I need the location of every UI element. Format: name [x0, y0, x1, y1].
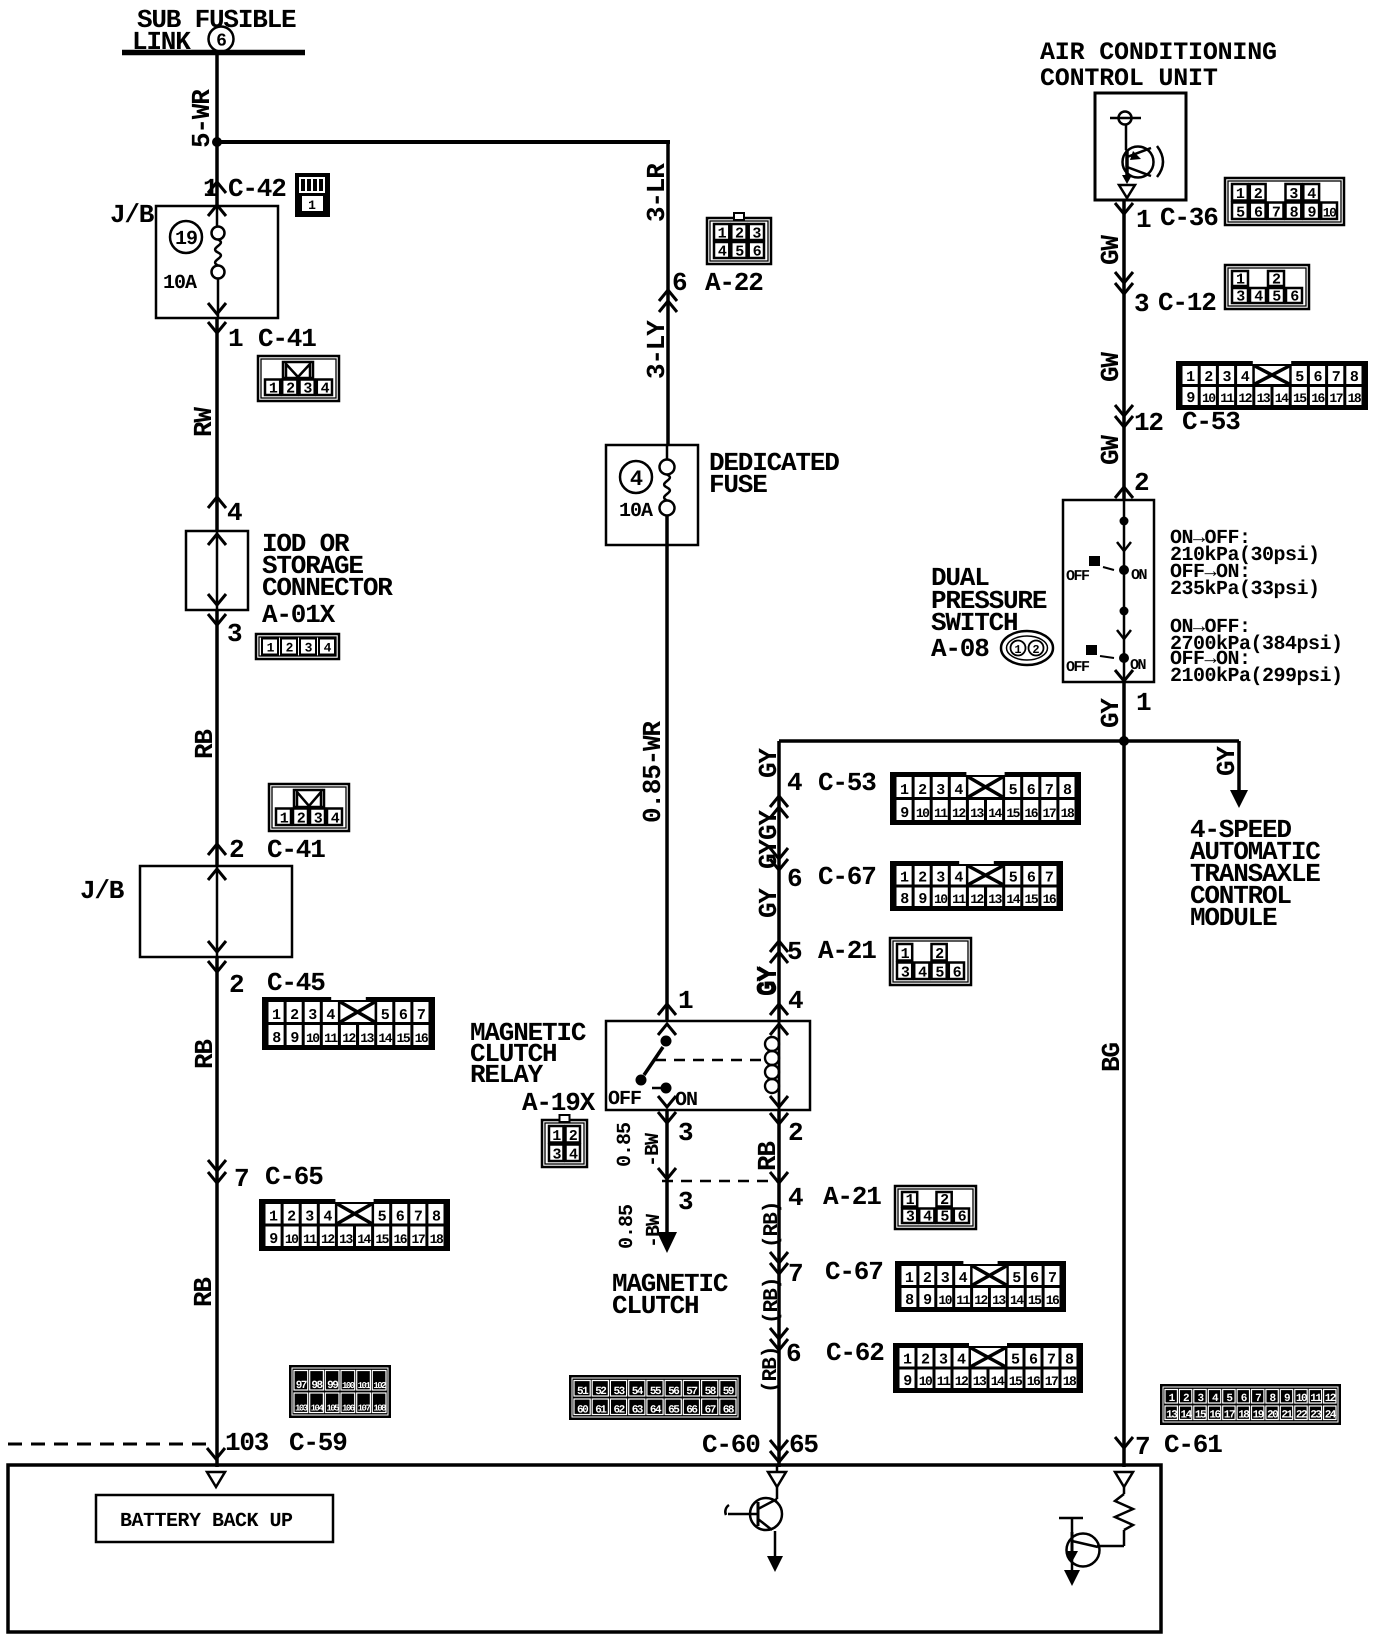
svg-text:GW: GW [1096, 235, 1126, 265]
svg-text:2: 2 [921, 1352, 930, 1369]
pressure switch contact lower [1066, 607, 1147, 682]
svg-text:60: 60 [577, 1405, 588, 1417]
dedicated fuse element [619, 445, 675, 523]
svg-text:6: 6 [672, 268, 687, 298]
svg-text:1: 1 [1186, 369, 1195, 386]
pin 65 arrow into module [770, 1440, 788, 1462]
svg-text:5: 5 [1009, 870, 1018, 887]
svg-text:J/B: J/B [110, 200, 155, 230]
pin 2 connector C-41 label [208, 835, 325, 865]
svg-text:2100kPa(299psi): 2100kPa(299psi) [1170, 665, 1343, 688]
svg-text:6: 6 [1313, 369, 1322, 386]
svg-text:2: 2 [1032, 643, 1039, 657]
junction block J/B lower box [80, 866, 292, 957]
svg-text:6: 6 [1241, 1393, 1247, 1405]
svg-text:6: 6 [787, 864, 802, 894]
fuse 19 element [163, 206, 225, 318]
svg-text:5: 5 [378, 1209, 387, 1226]
svg-text:22: 22 [1296, 1410, 1307, 1422]
MAGNETIC CLUTCH label [612, 1269, 728, 1321]
svg-text:GY: GY [754, 810, 784, 840]
svg-text:1: 1 [900, 782, 909, 799]
pin 1 connector C-42 label [203, 174, 286, 216]
svg-text:A-01X: A-01X [262, 600, 336, 630]
svg-text:1: 1 [308, 198, 316, 213]
svg-text:1: 1 [228, 324, 243, 354]
svg-text:11: 11 [956, 1293, 970, 1308]
svg-text:4: 4 [788, 1183, 803, 1213]
connector C-61 icon [1160, 1384, 1341, 1425]
svg-text:10: 10 [306, 1031, 320, 1046]
pin 6 connector C-67 label [770, 848, 876, 894]
svg-text:OFF: OFF [1066, 568, 1090, 585]
svg-text:7: 7 [1047, 1352, 1055, 1369]
AIR CONDITIONING CONTROL UNIT label [1040, 38, 1277, 93]
arrow to magnetic clutch [657, 1232, 677, 1253]
svg-text:62: 62 [613, 1405, 624, 1417]
svg-text:18: 18 [430, 1232, 444, 1247]
svg-text:13: 13 [992, 1293, 1006, 1308]
svg-text:6: 6 [216, 31, 226, 51]
svg-text:GW: GW [1096, 352, 1126, 382]
svg-text:GW: GW [1096, 435, 1126, 465]
svg-text:7: 7 [1332, 369, 1340, 386]
wire RB upper [190, 610, 220, 866]
svg-text:J/B: J/B [80, 876, 125, 906]
svg-text:3: 3 [939, 1352, 948, 1369]
svg-text:10A: 10A [163, 272, 197, 295]
svg-text:C-42: C-42 [228, 174, 286, 204]
AIR CONDITIONING CONTROL UNIT box [1095, 93, 1186, 200]
wire horizontal to 3-LR branch [216, 140, 670, 144]
connector C-67 icon (upper) [890, 860, 1063, 911]
svg-text:5: 5 [1295, 369, 1304, 386]
svg-text:1: 1 [267, 641, 275, 656]
svg-text:0.85: 0.85 [616, 1205, 639, 1249]
pin 2 into dual pressure switch [1115, 468, 1149, 498]
svg-text:13: 13 [360, 1031, 374, 1046]
svg-text:3: 3 [941, 1270, 950, 1287]
connector C-42 icon [295, 173, 330, 217]
svg-text:12: 12 [1134, 408, 1163, 438]
svg-text:16: 16 [1209, 1410, 1220, 1422]
node junction 5-WR [212, 137, 222, 147]
pin 3 relay exit [614, 1112, 693, 1167]
connector C-53 icon (branch) [890, 771, 1081, 825]
wire RB below relay [753, 1110, 803, 1467]
svg-text:2: 2 [1134, 468, 1149, 498]
svg-text:7: 7 [1048, 1270, 1056, 1287]
svg-text:12: 12 [974, 1293, 988, 1308]
connector A-21 icon (upper) [890, 938, 971, 985]
svg-text:4: 4 [227, 498, 242, 528]
svg-text:2: 2 [918, 870, 927, 887]
svg-text:GY: GY [1212, 746, 1242, 776]
svg-text:AIR CONDITIONING: AIR CONDITIONING [1040, 38, 1277, 67]
svg-text:11: 11 [1220, 391, 1234, 406]
svg-text:3: 3 [678, 1187, 693, 1217]
svg-text:11: 11 [934, 806, 948, 821]
svg-text:13: 13 [970, 806, 984, 821]
svg-text:15: 15 [375, 1232, 389, 1247]
svg-text:3: 3 [308, 1007, 317, 1024]
svg-text:C-41: C-41 [267, 835, 325, 865]
transistor (module, middle) [725, 1465, 786, 1572]
dashed boundary line left [8, 1443, 206, 1446]
wire RW [189, 318, 219, 531]
svg-text:3: 3 [1222, 369, 1231, 386]
pin 5 connector A-21 label [770, 936, 876, 967]
svg-text:103: 103 [225, 1428, 269, 1458]
junction block J/B fuse 19 box [110, 200, 278, 318]
a/c control unit internal circuit [1110, 112, 1163, 199]
svg-text:13: 13 [1257, 391, 1271, 406]
wire GY horizontal [779, 739, 1239, 743]
svg-text:65: 65 [789, 1430, 818, 1460]
svg-text:1: 1 [1136, 205, 1151, 235]
svg-text:4: 4 [788, 986, 803, 1016]
pin 4 connector C-53 label [770, 768, 876, 818]
svg-text:2: 2 [290, 1007, 299, 1024]
svg-text:7: 7 [1045, 870, 1053, 887]
wire RB middle [190, 957, 220, 1444]
pin 7 connector C-61 label [1115, 1430, 1222, 1462]
svg-text:1: 1 [1236, 272, 1245, 289]
svg-text:105: 105 [326, 1404, 339, 1414]
svg-text:C-67: C-67 [825, 1257, 883, 1287]
connector C-36 icon [1225, 178, 1344, 225]
pin 7 connector C-67 lower label [770, 1252, 883, 1289]
connector C-59 icon [289, 1365, 391, 1418]
svg-text:RW: RW [189, 407, 219, 437]
svg-text:RB: RB [190, 1039, 220, 1069]
svg-text:2: 2 [923, 1270, 932, 1287]
DEDICATED FUSE box [606, 445, 839, 545]
4-SPEED AUTOMATIC TRANSAXLE CONTROL MODULE label [1190, 815, 1320, 933]
svg-text:OFF: OFF [1066, 659, 1090, 676]
svg-text:10: 10 [916, 806, 930, 821]
pin 103 connector C-59 label [207, 1428, 347, 1459]
svg-text:10: 10 [919, 1374, 933, 1389]
svg-text:16: 16 [1311, 391, 1325, 406]
svg-text:20: 20 [1267, 1410, 1278, 1422]
node GY junction [1119, 736, 1129, 746]
svg-text:8: 8 [1065, 1352, 1074, 1369]
wire 3-LY [642, 320, 672, 379]
svg-text:18: 18 [1061, 806, 1075, 821]
svg-text:12: 12 [952, 806, 966, 821]
svg-text:6: 6 [1027, 870, 1036, 887]
svg-text:2: 2 [286, 641, 294, 656]
svg-text:15: 15 [1025, 892, 1039, 907]
wire 5-WR vertical [187, 53, 217, 206]
MAGNETIC CLUTCH RELAY label [470, 1018, 596, 1118]
svg-text:12: 12 [1325, 1393, 1336, 1405]
connector C-41 icon (top) [258, 356, 339, 401]
svg-text:ON: ON [675, 1089, 697, 1112]
svg-text:1: 1 [901, 946, 910, 963]
svg-text:15: 15 [1293, 391, 1307, 406]
pin 4 arrow into IOD connector [208, 497, 242, 528]
svg-text:14: 14 [357, 1232, 371, 1247]
svg-text:2: 2 [1204, 369, 1213, 386]
connector A-21 icon (lower) [895, 1186, 976, 1229]
svg-text:C-45: C-45 [267, 968, 325, 998]
wire GY to junction [1122, 682, 1126, 741]
svg-text:1: 1 [718, 226, 727, 243]
connector C-62 icon [893, 1342, 1083, 1393]
svg-text:14: 14 [988, 806, 1002, 821]
resistor and transistor (module, right) [1059, 1472, 1133, 1586]
svg-text:GY: GY [754, 748, 784, 778]
svg-text:235kPa(33psi): 235kPa(33psi) [1170, 578, 1320, 601]
svg-text:7: 7 [788, 1259, 802, 1289]
svg-text:1: 1 [1014, 643, 1021, 657]
pin 3 exit label [208, 614, 242, 649]
pin 7 connector C-65 label [208, 1160, 323, 1194]
svg-text:10: 10 [1202, 391, 1216, 406]
svg-text:1: 1 [1236, 186, 1245, 203]
svg-text:108: 108 [373, 1404, 386, 1414]
svg-text:13: 13 [339, 1232, 353, 1247]
svg-text:4: 4 [326, 1007, 335, 1024]
svg-text:4: 4 [1307, 186, 1316, 203]
DUAL PRESSURE SWITCH box [1063, 500, 1154, 682]
power source label SUB FUSIBLE LINK 6 [132, 5, 296, 57]
svg-text:6: 6 [1030, 1270, 1039, 1287]
svg-text:1: 1 [900, 870, 909, 887]
svg-text:4: 4 [1241, 369, 1250, 386]
svg-text:1: 1 [905, 1270, 914, 1287]
svg-text:14: 14 [991, 1374, 1005, 1389]
svg-text:RB: RB [190, 729, 220, 759]
svg-text:0.85-WR: 0.85-WR [638, 721, 668, 823]
svg-text:97: 97 [296, 1380, 307, 1392]
svg-text:107: 107 [358, 1404, 371, 1414]
svg-text:3: 3 [752, 226, 761, 243]
pin 1 into relay [658, 986, 693, 1016]
wire GW label 3 [1096, 435, 1126, 465]
svg-text:4: 4 [630, 467, 643, 492]
svg-text:15: 15 [1009, 1374, 1023, 1389]
wire (RB) label 1 [761, 1202, 784, 1248]
svg-text:17: 17 [1045, 1374, 1058, 1389]
svg-text:MODULE: MODULE [1190, 903, 1277, 933]
svg-text:8: 8 [432, 1209, 441, 1226]
label 10A rating [208, 303, 226, 333]
svg-text:1: 1 [678, 986, 693, 1016]
svg-text:100: 100 [342, 1381, 355, 1391]
svg-text:GY: GY [1096, 698, 1126, 728]
svg-text:17: 17 [1224, 1410, 1235, 1422]
wire GY branch [777, 741, 781, 1021]
svg-text:4: 4 [954, 782, 963, 799]
svg-text:13: 13 [988, 892, 1002, 907]
svg-text:C-41: C-41 [258, 324, 316, 354]
wire into module box [215, 1444, 219, 1467]
arrow into battery back up [207, 1472, 225, 1487]
connector C-45 icon [262, 996, 435, 1050]
svg-text:-BW: -BW [642, 1133, 665, 1167]
svg-text:3: 3 [678, 1118, 693, 1148]
svg-text:RB: RB [189, 1277, 219, 1307]
svg-text:15: 15 [1028, 1293, 1042, 1308]
svg-text:3: 3 [936, 782, 945, 799]
pin 1 connector C-36 label [1115, 203, 1218, 235]
svg-text:16: 16 [393, 1232, 407, 1247]
svg-text:6: 6 [1029, 1352, 1038, 1369]
svg-text:4: 4 [324, 641, 332, 656]
svg-text:10: 10 [285, 1232, 299, 1247]
svg-text:10: 10 [1323, 206, 1337, 221]
svg-text:C-53: C-53 [1182, 407, 1240, 437]
svg-text:17: 17 [412, 1232, 425, 1247]
svg-text:3: 3 [1134, 289, 1149, 319]
relay internal dashed link [655, 1059, 769, 1062]
svg-text:2: 2 [287, 1209, 296, 1226]
svg-text:C-36: C-36 [1160, 203, 1218, 233]
svg-text:18: 18 [1063, 1374, 1077, 1389]
svg-text:14: 14 [1006, 892, 1020, 907]
pin 65 connector C-60 label [702, 1430, 818, 1460]
svg-text:57: 57 [686, 1386, 697, 1398]
svg-text:17: 17 [1329, 391, 1342, 406]
connector C-53 icon (right) [1176, 360, 1368, 410]
wire RB lower label [189, 1277, 219, 1307]
svg-text:11: 11 [303, 1232, 317, 1247]
svg-text:7: 7 [414, 1209, 422, 1226]
svg-text:2: 2 [918, 782, 927, 799]
svg-text:FUSE: FUSE [709, 470, 767, 500]
svg-text:2: 2 [229, 835, 244, 865]
svg-text:3: 3 [305, 641, 313, 656]
svg-text:99: 99 [327, 1380, 338, 1392]
svg-text:3: 3 [305, 1209, 314, 1226]
svg-text:6: 6 [396, 1209, 405, 1226]
svg-text:11: 11 [324, 1031, 338, 1046]
svg-text:C-62: C-62 [826, 1338, 884, 1368]
svg-text:6: 6 [786, 1339, 801, 1369]
svg-text:2: 2 [229, 970, 244, 1000]
svg-text:12: 12 [342, 1031, 356, 1046]
pressure values lower [1170, 616, 1343, 688]
svg-text:7: 7 [417, 1007, 425, 1024]
svg-text:14: 14 [1275, 391, 1289, 406]
svg-text:2: 2 [940, 1192, 949, 1209]
wire BG [1097, 741, 1127, 1467]
connector C-12 icon [1225, 265, 1309, 309]
svg-text:12: 12 [1238, 391, 1252, 406]
wire GY labels upper [754, 748, 784, 996]
svg-text:3-LY: 3-LY [642, 320, 672, 379]
svg-text:10: 10 [1296, 1393, 1307, 1405]
svg-text:67: 67 [705, 1405, 716, 1417]
svg-text:(RB): (RB) [760, 1347, 783, 1393]
svg-text:6: 6 [399, 1007, 408, 1024]
svg-text:19: 19 [175, 228, 197, 251]
svg-text:C-59: C-59 [289, 1428, 347, 1458]
svg-text:11: 11 [952, 892, 966, 907]
DUAL PRESSURE SWITCH label [931, 563, 1047, 664]
svg-text:2: 2 [935, 946, 944, 963]
pin 1 exit pressure switch [1096, 688, 1151, 728]
svg-text:ON: ON [1131, 567, 1148, 584]
svg-text:C-60: C-60 [702, 1430, 760, 1460]
wire relay to clutch [658, 1110, 676, 1234]
svg-text:14: 14 [1010, 1293, 1024, 1308]
svg-text:10A: 10A [619, 500, 653, 523]
svg-text:11: 11 [937, 1374, 951, 1389]
wire GW label 1 [1096, 235, 1126, 265]
svg-text:C-53: C-53 [818, 768, 876, 798]
wire 0.85-WR [638, 515, 668, 1021]
wire GY to transaxle module [1212, 741, 1248, 808]
svg-text:2: 2 [735, 226, 744, 243]
svg-text:BATTERY BACK UP: BATTERY BACK UP [120, 1510, 293, 1533]
connector C-60 icon [569, 1375, 741, 1420]
svg-text:A-21: A-21 [818, 936, 876, 966]
svg-text:8: 8 [1350, 369, 1359, 386]
svg-text:59: 59 [723, 1386, 734, 1398]
svg-text:2: 2 [1272, 272, 1281, 289]
svg-text:1: 1 [1136, 688, 1151, 718]
svg-text:OFF: OFF [608, 1088, 641, 1111]
pin 6 connector A-22 label [659, 268, 763, 312]
dashed link to RB wire [662, 1180, 779, 1183]
bus bar [122, 50, 305, 56]
svg-text:5: 5 [1011, 1352, 1020, 1369]
svg-text:9: 9 [1284, 1393, 1290, 1405]
svg-text:5: 5 [381, 1007, 390, 1024]
svg-text:C-67: C-67 [818, 862, 876, 892]
svg-text:18: 18 [1348, 391, 1362, 406]
svg-text:3: 3 [227, 619, 242, 649]
pin 6 connector C-62 label [770, 1328, 884, 1369]
svg-text:GY: GY [754, 966, 784, 996]
svg-text:12: 12 [321, 1232, 335, 1247]
svg-text:2: 2 [788, 1118, 803, 1148]
svg-text:5: 5 [787, 937, 802, 967]
pin 12 connector C-53 label [1115, 405, 1240, 438]
svg-text:C-12: C-12 [1158, 288, 1216, 318]
svg-text:1: 1 [906, 1192, 915, 1209]
svg-text:15: 15 [1006, 806, 1020, 821]
BATTERY BACK UP box [96, 1495, 333, 1542]
svg-text:66: 66 [686, 1405, 697, 1417]
svg-text:GY: GY [754, 839, 784, 869]
svg-text:8: 8 [1063, 782, 1072, 799]
svg-text:CONNECTOR: CONNECTOR [262, 573, 393, 603]
wire (RB) label 3 [760, 1347, 783, 1393]
svg-text:16: 16 [415, 1031, 429, 1046]
svg-text:4: 4 [323, 1209, 332, 1226]
wire 3-LR vertical [642, 140, 672, 445]
svg-text:A-08: A-08 [931, 634, 989, 664]
svg-text:2: 2 [1183, 1393, 1189, 1405]
svg-text:4: 4 [787, 768, 802, 798]
MAGNETIC CLUTCH RELAY box [606, 1021, 810, 1110]
svg-text:GY: GY [754, 888, 784, 918]
svg-text:16: 16 [1027, 1374, 1041, 1389]
svg-text:56: 56 [668, 1386, 679, 1398]
svg-text:3: 3 [1289, 186, 1298, 203]
svg-text:6: 6 [1027, 782, 1036, 799]
pin 4 into relay coil [752, 966, 803, 1016]
svg-text:16: 16 [1046, 1293, 1060, 1308]
IOD OR STORAGE CONNECTOR A-01X box [186, 529, 393, 630]
svg-text:A-19X: A-19X [522, 1088, 596, 1118]
connector C-41 icon (bottom) [269, 784, 349, 831]
